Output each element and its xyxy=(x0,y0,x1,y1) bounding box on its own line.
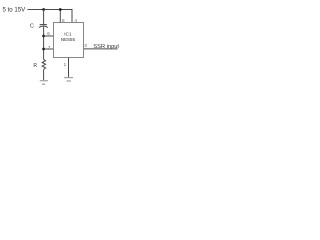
capacitor C xyxy=(39,25,48,28)
node junction top rail / pin 8 xyxy=(59,8,62,11)
svg-text:NE555: NE555 xyxy=(61,37,76,42)
wire pin 1 to ground xyxy=(68,58,70,77)
wire pin 8 drop xyxy=(59,10,61,23)
svg-text:3: 3 xyxy=(84,43,87,48)
node junction pin 2 xyxy=(42,48,45,51)
svg-text:1: 1 xyxy=(64,62,67,67)
svg-text:5 to 15V: 5 to 15V xyxy=(3,7,27,14)
wire top supply rail with corner down to pin 4 xyxy=(28,10,73,23)
resistor R xyxy=(42,59,46,69)
svg-text:6: 6 xyxy=(47,31,50,36)
node junction pin 6 xyxy=(42,35,45,38)
svg-text:IC1: IC1 xyxy=(64,31,72,36)
wire pin 6 stub xyxy=(44,35,54,37)
wire pin 3 output stub xyxy=(84,48,118,50)
IC1 NE555 timer box xyxy=(54,23,84,58)
svg-text:4: 4 xyxy=(74,18,77,23)
wire pin 2 stub xyxy=(44,48,54,50)
svg-text:R: R xyxy=(33,63,37,69)
wire left bus (cap to resistor) xyxy=(43,27,45,60)
svg-text:C: C xyxy=(30,24,34,30)
wire resistor to ground xyxy=(43,70,45,81)
svg-text:SSR input: SSR input xyxy=(93,44,119,50)
ground (below pin 1) xyxy=(64,78,73,81)
ground (left, below R) xyxy=(40,81,48,85)
node junction top rail / capacitor branch xyxy=(42,8,45,11)
svg-text:8: 8 xyxy=(62,18,65,23)
svg-text:2: 2 xyxy=(48,45,51,50)
wire capacitor branch upper xyxy=(43,10,45,25)
